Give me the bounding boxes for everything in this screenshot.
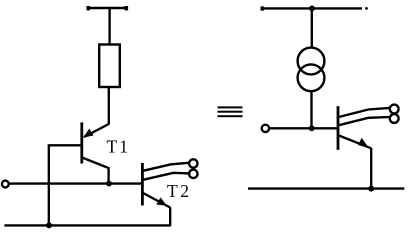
wire: right ground rail <box>248 187 404 189</box>
transistor Q collector (lower lead) <box>339 117 390 125</box>
wire: left ground rail <box>4 224 170 226</box>
equivalence symbol <box>218 106 243 117</box>
wire: T1 base line <box>49 144 82 146</box>
resistor R <box>99 45 120 88</box>
transistor T2 collector (upper lead) <box>143 163 189 171</box>
svg-text:T2: T2 <box>167 181 192 201</box>
wire: left vertical (T1 base to bottom rail) <box>48 144 50 225</box>
node: T1 collector / T2 base junction <box>106 181 112 187</box>
transistor T2 base bar <box>141 163 144 206</box>
transistor T1 collector <box>82 158 109 184</box>
wire: rail to current source <box>311 8 313 48</box>
transistor Q collector (upper lead) <box>339 108 390 117</box>
current source I (two overlapping circles) <box>298 48 325 92</box>
node: rail to current source <box>309 5 315 11</box>
terminal: Q output upper <box>390 105 399 114</box>
svg-text:T1: T1 <box>107 136 130 156</box>
transistor Q emitter (NPN arrow out) <box>339 136 371 189</box>
node: current source / base junction <box>309 125 315 131</box>
transistor T2 emitter (NPN arrow out) <box>143 193 170 226</box>
wire: right positive supply rail <box>261 6 368 10</box>
node: Q emitter to ground rail <box>368 186 374 192</box>
terminal: T2 output lower <box>189 170 197 178</box>
transistor T2 collector (lower lead) <box>143 173 189 180</box>
terminal: Q output lower <box>390 114 399 123</box>
terminal: T2 output upper <box>189 159 197 167</box>
wire: current source to base node <box>310 91 312 128</box>
transistor T1 emitter (PNP arrow into base) <box>83 124 109 138</box>
wire: right base line <box>269 127 338 129</box>
wire: input line to T2 base <box>9 182 143 184</box>
transistor Q base bar <box>337 106 340 150</box>
terminal: input (right) <box>262 125 269 132</box>
wire: left positive supply rail <box>87 6 129 10</box>
wire: supply rail to resistor top <box>108 8 110 45</box>
wire: resistor bottom to T1 emitter <box>108 87 110 125</box>
node: left vertical to ground rail <box>46 222 52 228</box>
terminal: input (left) <box>2 181 9 188</box>
transistor T1 base bar <box>80 122 83 163</box>
